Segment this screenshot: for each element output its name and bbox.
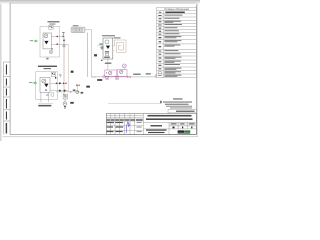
svg-text:Условные обозначения: Условные обозначения	[164, 9, 190, 11]
